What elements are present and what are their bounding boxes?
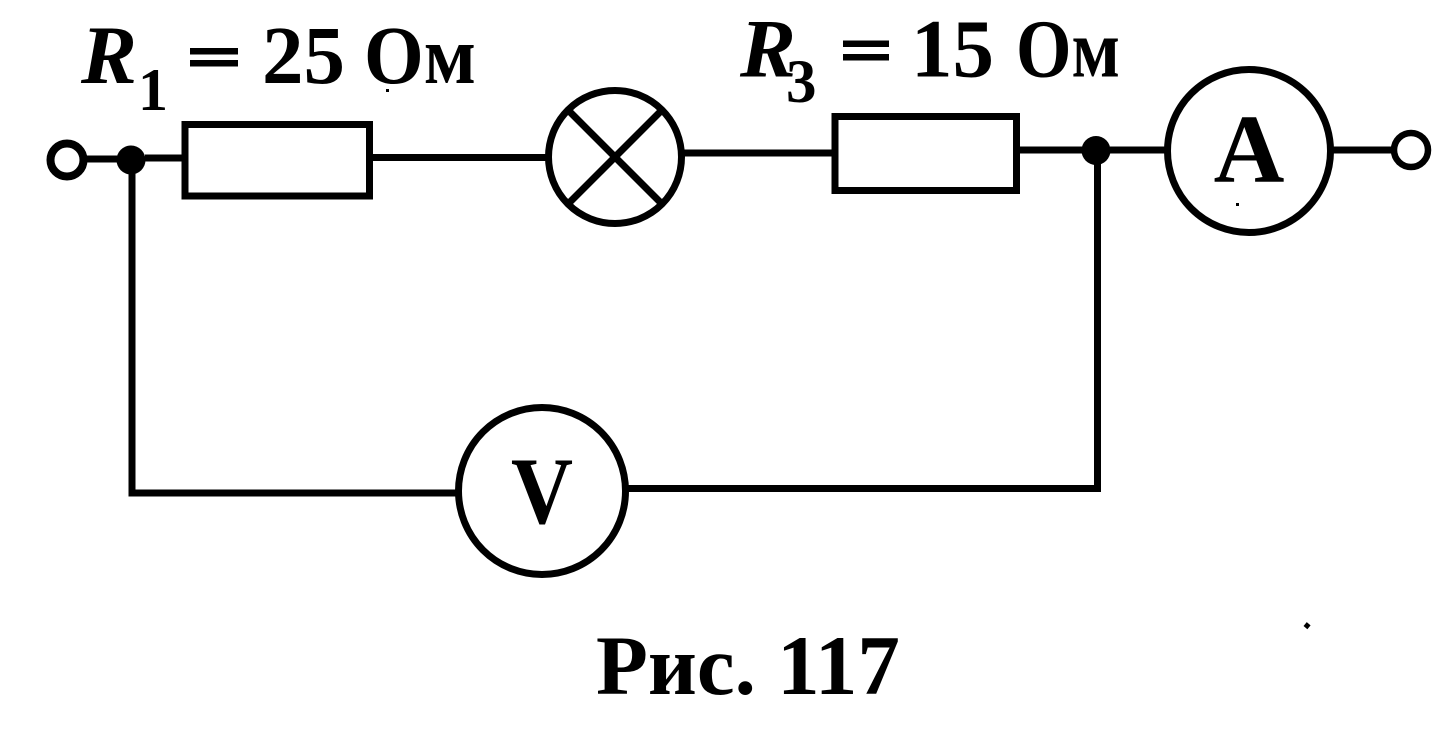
svg-text:3: 3 bbox=[786, 49, 817, 116]
wire bbox=[145, 155, 186, 162]
wire bbox=[681, 150, 836, 157]
terminal T2 bbox=[1394, 133, 1428, 167]
node B bbox=[1082, 136, 1111, 165]
svg-text:Ом: Ом bbox=[1016, 3, 1120, 95]
label R3 = 15 Ом bbox=[739, 3, 1120, 117]
svg-text:Ом: Ом bbox=[364, 9, 476, 101]
wire bbox=[87, 156, 122, 163]
svg-text:15: 15 bbox=[911, 3, 994, 95]
svg-text:Рис. 117: Рис. 117 bbox=[596, 619, 900, 713]
svg-text:V: V bbox=[511, 438, 573, 544]
terminal T1 bbox=[51, 144, 84, 177]
scan speck bbox=[386, 89, 389, 92]
svg-text:25: 25 bbox=[262, 9, 345, 101]
svg-text:R: R bbox=[80, 9, 137, 101]
resistor R1 bbox=[185, 125, 370, 197]
wire bbox=[1110, 147, 1170, 154]
scan speck bbox=[1236, 203, 1239, 206]
scan speck bbox=[1304, 622, 1311, 629]
label R1 = 25 Ом bbox=[80, 9, 476, 123]
voltmeter PV1 bbox=[459, 408, 626, 575]
wire bbox=[1330, 147, 1394, 154]
wire bbox=[1017, 147, 1090, 154]
svg-text:A: A bbox=[1214, 96, 1285, 204]
ammeter PA1 bbox=[1168, 70, 1331, 233]
node A bbox=[117, 146, 146, 175]
wire bbox=[370, 154, 550, 161]
svg-text:1: 1 bbox=[138, 57, 168, 123]
wire bbox=[132, 165, 458, 493]
lamp HL1 bbox=[549, 91, 682, 224]
wire bbox=[626, 152, 1098, 489]
resistor R3 bbox=[835, 117, 1017, 191]
